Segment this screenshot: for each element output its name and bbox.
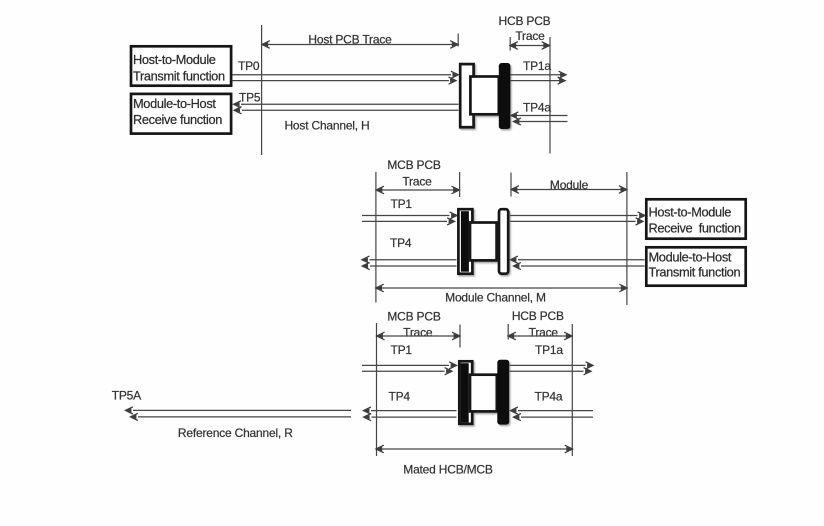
- connector middle: module plug (white): [499, 209, 508, 274]
- svg-text:Transmit function: Transmit function: [133, 69, 225, 84]
- connector bottom: HCB receptacle (black): [497, 360, 509, 425]
- connector top: HCB receptacle (black): [499, 63, 511, 129]
- wire Reference Channel differential pair to TP5A: [126, 407, 352, 421]
- svg-text:TP1: TP1: [391, 343, 413, 357]
- wire TP4 differential pair out of MCB connector (middle left): [362, 256, 457, 270]
- svg-text:HCB PCB: HCB PCB: [512, 309, 564, 323]
- svg-text:Module-to-Host: Module-to-Host: [649, 250, 732, 265]
- svg-text:Receive function: Receive function: [133, 112, 222, 127]
- dimension Host PCB Trace: [262, 33, 458, 49]
- svg-text:Receive function: Receive function: [649, 221, 741, 236]
- svg-text:Module Channel, M: Module Channel, M: [445, 291, 546, 305]
- dimension Module Channel, M: [376, 284, 627, 304]
- boundary line: MCB compliance plane (bottom left vertical): [376, 323, 378, 456]
- svg-text:Trace: Trace: [402, 175, 432, 189]
- dimension MCB PCB Trace (middle): [376, 172, 459, 197]
- wire TP0 differential pair into MCB connector: [233, 71, 459, 84]
- svg-text:TP1: TP1: [391, 197, 413, 211]
- svg-text:Trace: Trace: [403, 326, 433, 340]
- wire TP4 differential pair out of MCB connector (bottom left): [364, 407, 457, 421]
- dimension MCB PCB Trace (bottom): [377, 325, 460, 348]
- connector bottom: connector mid body: [470, 375, 497, 412]
- box Module-to-Host Transmit function: [646, 247, 745, 285]
- wire TP4a differential pair into HCB connector: [511, 112, 568, 125]
- svg-text:Host-to-Module: Host-to-Module: [133, 52, 216, 67]
- boundary line: host compliance plane (left vertical): [261, 25, 263, 155]
- box Host-to-Module Receive function: [646, 199, 745, 238]
- svg-text:Module-to-Host: Module-to-Host: [133, 96, 216, 111]
- wire TP5 differential pair out of connector into Receive box: [234, 101, 459, 114]
- wire TP1a differential pair out of HCB connector (bottom right): [510, 362, 594, 375]
- wire TP1 differential pair into MCB connector (middle left): [362, 212, 457, 225]
- boundary line: HCB compliance plane (right vertical): [549, 37, 551, 154]
- boundary line: module compliance plane (right vertical): [626, 172, 628, 305]
- svg-text:TP4: TP4: [389, 390, 411, 404]
- svg-text:Transmit function: Transmit function: [649, 265, 741, 280]
- svg-text:TP1a: TP1a: [523, 59, 551, 73]
- svg-text:Trace: Trace: [529, 326, 559, 340]
- dimension Mated HCB/MCB: [376, 445, 573, 476]
- connector bottom: MCB receptacle contact (black bar): [461, 363, 469, 422]
- dimension HCB PCB Trace (bottom): [508, 324, 572, 340]
- svg-text:TP1a: TP1a: [535, 343, 563, 357]
- svg-text:Mated HCB/MCB: Mated HCB/MCB: [403, 462, 493, 476]
- connector middle: MCB receptacle contact (black bar): [461, 211, 469, 272]
- svg-text:TP5A: TP5A: [112, 388, 141, 402]
- svg-text:Host-to-Module: Host-to-Module: [649, 205, 732, 220]
- svg-text:MCB PCB: MCB PCB: [387, 310, 440, 324]
- svg-text:TP5: TP5: [239, 91, 261, 105]
- connector bottom: MCB receptacle shell (white): [459, 361, 472, 424]
- connector top: MCB plug shell (white): [460, 64, 473, 127]
- connector top: connector mid body: [470, 77, 498, 115]
- svg-text:TP0: TP0: [238, 59, 260, 73]
- dimension HCB PCB Trace (top): [510, 29, 550, 51]
- boundary line: MCB compliance plane (left vertical): [375, 172, 377, 303]
- connector middle: connector mid body: [470, 223, 497, 261]
- box Host-to-Module Transmit function: [131, 46, 231, 85]
- svg-text:Host Channel, H: Host Channel, H: [284, 119, 369, 133]
- wire TP1 differential pair from module connector into Receive box (middle right): [510, 212, 645, 225]
- svg-text:TP4: TP4: [390, 236, 412, 250]
- boundary line: HCB compliance plane (bottom right vertical): [571, 324, 573, 456]
- svg-text:HCB PCB: HCB PCB: [499, 14, 551, 28]
- svg-text:MCB PCB: MCB PCB: [387, 158, 440, 172]
- svg-text:TP4a: TP4a: [523, 101, 551, 115]
- wire TP1 differential pair into MCB connector (bottom left): [362, 362, 457, 375]
- svg-text:Trace: Trace: [515, 29, 545, 43]
- connector middle: MCB receptacle shell (white): [458, 209, 472, 274]
- svg-text:Reference Channel, R: Reference Channel, R: [178, 426, 293, 440]
- box Module-to-Host Receive function: [131, 94, 231, 134]
- wire TP1a differential pair out of HCB connector: [510, 71, 566, 84]
- svg-text:TP4a: TP4a: [535, 389, 563, 403]
- dimension Module: [511, 173, 627, 197]
- wire TP4 differential pair from Transmit box into module connector (middle right): [511, 256, 645, 270]
- wire TP4a differential pair into HCB connector (bottom right): [511, 407, 594, 421]
